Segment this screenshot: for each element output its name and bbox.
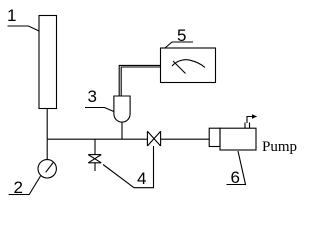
svg-text:Pump: Pump xyxy=(262,139,297,155)
label 1 xyxy=(7,6,16,25)
leader line for label 4 (connects both valves) xyxy=(103,146,154,188)
svg-text:4: 4 xyxy=(137,169,146,188)
meter 5 (gauge box) xyxy=(161,48,216,83)
bowtie valve 4b on main pipe xyxy=(147,131,160,146)
label 4 xyxy=(137,169,146,188)
svg-text:6: 6 xyxy=(231,168,240,187)
leader line for label 1 xyxy=(8,26,40,31)
svg-text:1: 1 xyxy=(7,6,16,25)
wire branch down to needle valve xyxy=(94,139,96,154)
label Pump xyxy=(262,139,297,155)
leader line for label 6 xyxy=(227,151,246,185)
wire junction down to gauge xyxy=(46,139,48,160)
label 2 xyxy=(14,178,23,197)
flask 3 (drying tube) xyxy=(114,96,130,122)
pump outlet nozzle xyxy=(244,123,246,129)
leader line for label 2 xyxy=(9,176,41,195)
main pipe line (right section) xyxy=(161,138,210,140)
leader line for label 5 xyxy=(165,42,193,48)
meter needle xyxy=(173,61,186,74)
meter scale arc xyxy=(172,60,205,68)
pressure gauge 2 xyxy=(38,160,56,178)
pump motor box xyxy=(209,128,220,146)
label 6 xyxy=(231,168,240,187)
pump main box 6 xyxy=(220,128,256,150)
wire column bottom to main pipe xyxy=(46,109,48,140)
label 3 xyxy=(88,87,97,106)
column 1 (gas cylinder/column) xyxy=(39,16,57,109)
main pipe line (left section) xyxy=(47,138,147,140)
label 5 xyxy=(177,26,186,45)
needle valve 4a (vertical) xyxy=(88,155,101,171)
wire flask outlet to main pipe xyxy=(121,122,123,139)
pump outlet line with arrow xyxy=(247,117,257,124)
leader line for label 3 xyxy=(85,108,114,112)
svg-text:3: 3 xyxy=(88,87,97,106)
capillary double tube to meter xyxy=(119,65,161,96)
